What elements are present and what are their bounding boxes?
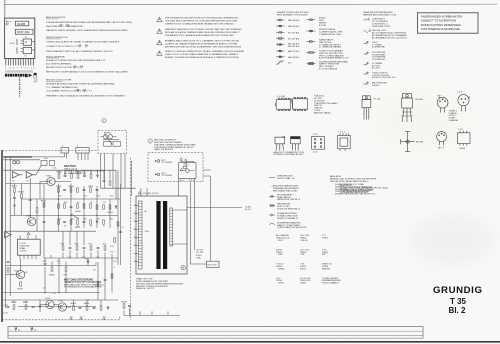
diode D649 bbox=[107, 306, 109, 310]
svg-text:CP: CP bbox=[25, 272, 29, 274]
meas row4 symbol bbox=[364, 52, 369, 55]
bus above IC bbox=[44, 257, 118, 259]
svg-text:B3: B3 bbox=[26, 180, 28, 182]
svg-text:0,6V: 0,6V bbox=[53, 293, 56, 295]
edge connector dark bar bbox=[5, 74, 28, 77]
svg-text:4,7V: 4,7V bbox=[43, 288, 46, 290]
svg-text:R627: R627 bbox=[61, 243, 65, 245]
svg-text:R611: R611 bbox=[88, 186, 94, 188]
svg-text:29365: 29365 bbox=[278, 268, 285, 270]
resistor R616 bbox=[108, 205, 114, 214]
resistor R623 bbox=[90, 220, 92, 224]
resistor R632 bbox=[23, 302, 29, 309]
svg-text:MESURE AVEC/MISURATO CON: MESURE AVEC/MISURATO CON bbox=[363, 13, 396, 16]
svg-text:R616: R616 bbox=[108, 212, 114, 214]
svg-text:TO THR20: TO THR20 bbox=[162, 175, 173, 177]
legend diode BA155 row1 bbox=[276, 19, 285, 21]
meas row5 symbol bbox=[364, 62, 369, 65]
svg-text:R700: R700 bbox=[110, 246, 114, 248]
legend LED row3 bbox=[307, 40, 316, 43]
diode D573 bbox=[13, 204, 15, 208]
wires bottom cluster bbox=[14, 300, 101, 306]
small rect block left bbox=[41, 160, 55, 165]
quad-lead symbol BF469 bbox=[401, 132, 415, 152]
svg-text:-103.05: -103.05 bbox=[300, 240, 308, 242]
svg-text:R619: R619 bbox=[97, 195, 101, 197]
mains connector block 1 bbox=[61, 148, 69, 153]
capacitor C603 bbox=[63, 189, 66, 190]
svg-text:R601: R601 bbox=[56, 186, 62, 188]
bottom components mid bbox=[122, 301, 131, 308]
input triangle connector 3 bbox=[5, 231, 11, 237]
svg-text:TO 220: TO 220 bbox=[373, 99, 381, 101]
long drop wire right bbox=[210, 176, 212, 261]
TO can row2 bbox=[437, 132, 447, 146]
safety triangle transformer label bbox=[138, 191, 141, 194]
svg-text:APRIRE TOGLIERE LA SPINA DALLA: APRIRE TOGLIERE LA SPINA DALLA PRESA DI … bbox=[165, 56, 240, 59]
footer title bar outline bbox=[8, 327, 423, 339]
svg-text:SIGNAL HF STEREO MODULE SUR PR: SIGNAL HF STEREO MODULE SUR PRISE ANTENN… bbox=[46, 59, 106, 62]
svg-text:A...: A... bbox=[145, 210, 149, 213]
resistor R608 bbox=[75, 204, 81, 213]
legend diode row7 bbox=[276, 56, 285, 58]
svg-text:I 0030: I 0030 bbox=[459, 148, 466, 150]
riser pair bbox=[140, 188, 142, 196]
svg-text:100 MV: 100 MV bbox=[372, 85, 380, 87]
svg-text:A ITUR: A ITUR bbox=[319, 24, 326, 27]
svg-text:41,8 V: 41,8 V bbox=[245, 209, 252, 211]
svg-text:R633: R633 bbox=[103, 243, 107, 245]
TO-39 can 2 bbox=[458, 95, 470, 112]
svg-text:R608: R608 bbox=[75, 211, 81, 213]
wires below degauss box bbox=[100, 154, 102, 189]
footer test-point symbol V51 bbox=[15, 327, 22, 332]
resistor R625 bbox=[103, 220, 105, 224]
svg-text:150+: 150+ bbox=[145, 231, 151, 233]
transistor T643 bbox=[58, 300, 67, 311]
svg-text:1 3 5: 1 3 5 bbox=[313, 134, 319, 136]
rail labels bbox=[110, 227, 124, 269]
svg-text:12V/5V: 12V/5V bbox=[19, 251, 27, 253]
svg-text:R637: R637 bbox=[63, 274, 67, 276]
svg-text:WOBBELSENDER UND TASTKOPF 10:1: WOBBELSENDER UND TASTKOPF 10:1 bbox=[335, 193, 376, 196]
input triangle connector 2 bbox=[26, 172, 36, 178]
connector lug NT1 bbox=[155, 160, 160, 163]
section boundary dashed vertical bbox=[130, 158, 132, 320]
svg-text:1 2 3: 1 2 3 bbox=[457, 92, 463, 94]
small trimmer pair bbox=[12, 160, 20, 164]
svg-text:29301: 29301 bbox=[322, 237, 329, 239]
warning note 1 symbol bbox=[157, 17, 162, 22]
cable trail dotted bbox=[19, 77, 21, 98]
earth circle marker bbox=[181, 266, 185, 270]
warning note 2 symbol bbox=[157, 29, 162, 34]
svg-text:TENSIONE CONT.: TENSIONE CONT. bbox=[372, 26, 391, 28]
resistor R615 bbox=[103, 205, 105, 209]
svg-text:T661: T661 bbox=[26, 216, 32, 218]
wire r578 bbox=[36, 199, 38, 231]
capacitor C613 bbox=[96, 189, 99, 190]
svg-text:WITH AN ISOLATING TRANSFORMER.: WITH AN ISOLATING TRANSFORMER. BEFORE OP… bbox=[165, 31, 240, 34]
capacitor C606 bbox=[70, 206, 73, 207]
diode D634 bbox=[39, 305, 41, 309]
legend diode row6 bbox=[276, 50, 285, 52]
svg-text:POINT DE MESURE LT: POINT DE MESURE LT bbox=[277, 208, 301, 210]
svg-text:PRESS MAX/AUTO BUTTON, ALL OBS: PRESS MAX/AUTO BUTTON, ALL OBSERVED PRES… bbox=[46, 50, 113, 53]
page bottom light rule above bbox=[8, 337, 423, 339]
section boundary dashed bottom bbox=[2, 317, 120, 320]
resistor R634 bbox=[97, 274, 113, 286]
svg-text:ALTERNATA/CON OSC. A LIVELLO: ALTERNATA/CON OSC. A LIVELLO bbox=[372, 36, 407, 39]
legend diode row2 bbox=[276, 25, 285, 27]
svg-text:C605: C605 bbox=[58, 195, 62, 197]
ground stubs bottom bbox=[70, 317, 106, 319]
svg-text:C623: C623 bbox=[70, 219, 74, 221]
circled info marker bbox=[148, 139, 152, 143]
transformer core bar right bbox=[163, 201, 167, 269]
svg-text:PERICOLO PER LA CORRENTE SUL T: PERICOLO PER LA CORRENTE SUL TELAIO. L'A… bbox=[165, 50, 245, 53]
capacitor C645 bbox=[79, 307, 82, 308]
junction dots bbox=[58, 198, 98, 216]
svg-text:ENTM.: ENTM. bbox=[104, 132, 111, 134]
lower distribution bus bbox=[6, 264, 96, 266]
svg-text:4: 4 bbox=[134, 212, 135, 214]
svg-text:VOLTMETRO: VOLTMETRO bbox=[372, 59, 386, 61]
inner rail pair bbox=[117, 170, 119, 265]
cap C701 bbox=[7, 261, 10, 262]
svg-text:D. CAPACITA VARIAB.: D. CAPACITA VARIAB. bbox=[319, 46, 342, 49]
svg-text:1N: 1N bbox=[103, 225, 105, 227]
svg-text:C618: C618 bbox=[84, 195, 88, 197]
resistor R610 bbox=[83, 204, 85, 208]
svg-text:CON RISERVA DI MODIFICHE: CON RISERVA DI MODIFICHE bbox=[421, 27, 460, 31]
svg-text:R622: R622 bbox=[58, 219, 62, 221]
svg-text:VALEUR DE CRETE LT: VALEUR DE CRETE LT bbox=[277, 198, 301, 201]
svg-text:0302: 0302 bbox=[278, 254, 284, 256]
capacitor C577 bbox=[43, 221, 46, 222]
degauss dashed box bbox=[98, 131, 126, 154]
svg-text:MOT OHD-STEUERUNG: MOT OHD-STEUERUNG bbox=[64, 277, 93, 281]
flat-pack row2 bbox=[458, 131, 470, 146]
wire drops from bus to motor row bbox=[45, 266, 66, 293]
svg-text:BA 157 B/S: BA 157 B/S bbox=[288, 50, 300, 53]
svg-text:C634: C634 bbox=[43, 261, 47, 263]
svg-text:T 35: T 35 bbox=[450, 297, 467, 306]
resistor R621 bbox=[75, 220, 81, 229]
svg-text:Bl. 2: Bl. 2 bbox=[449, 306, 466, 315]
upper row capacitor C584 bbox=[83, 175, 86, 176]
resistor R635 bbox=[49, 267, 55, 277]
svg-text:0,7V: 0,7V bbox=[3, 312, 8, 314]
svg-text:R624: R624 bbox=[83, 219, 87, 221]
svg-text:-104: -104 bbox=[300, 254, 305, 256]
svg-text:10k: 10k bbox=[90, 225, 93, 227]
svg-text:1k: 1k bbox=[71, 195, 73, 197]
svg-text:MAX-AUTO-TASTE GRUENDL. ALLE G: MAX-AUTO-TASTE GRUENDL. ALLE GEAENDERTE … bbox=[46, 29, 128, 32]
page left border line top bbox=[4, 0, 6, 18]
svg-text:PROJEKTION (SIEHE SERVICE-ANL.: PROJEKTION (SIEHE SERVICE-ANL.) bbox=[330, 180, 369, 183]
bus rows bbox=[6, 183, 47, 185]
vertical feed wires bbox=[58, 184, 60, 231]
svg-text:R580: R580 bbox=[57, 172, 63, 174]
bus taps bbox=[45, 258, 96, 265]
connector side note bbox=[34, 73, 39, 84]
svg-text:A. OSC.: A. OSC. bbox=[372, 67, 380, 70]
svg-text:SI601: SI601 bbox=[44, 158, 48, 160]
svg-text:D625: D625 bbox=[96, 219, 100, 221]
svg-text:C620: C620 bbox=[110, 195, 114, 197]
posistor sub-box bbox=[178, 163, 196, 179]
resistor R607 bbox=[77, 188, 79, 192]
upper row resistor R583 bbox=[76, 172, 82, 179]
capacitor C622 bbox=[83, 221, 86, 222]
label sprinkle upper bbox=[12, 158, 113, 228]
mains feeder dashed line bbox=[2, 150, 98, 152]
svg-text:8-18: 8-18 bbox=[10, 43, 15, 45]
svg-text:R626: R626 bbox=[109, 219, 113, 221]
bus row lower1 bbox=[3, 292, 100, 294]
svg-text:7: 7 bbox=[134, 260, 135, 262]
wire T640 base bbox=[6, 274, 18, 276]
TO-220 package bbox=[362, 96, 371, 120]
svg-text:R. DI SICUREZZA: R. DI SICUREZZA bbox=[319, 68, 338, 71]
transistor T640 bbox=[14, 270, 28, 278]
svg-text:R641: R641 bbox=[18, 288, 24, 290]
svg-text:R605: R605 bbox=[69, 186, 75, 188]
transistor T661 bbox=[26, 216, 36, 226]
IF stage sub-box 2 bbox=[23, 47, 31, 53]
tuner module outline bbox=[5, 18, 35, 58]
svg-text:STEUERUNG ANTRIEB MIT AV-SIGNA: STEUERUNG ANTRIEB MIT AV-SIGNAL UND ANTE… bbox=[46, 21, 133, 24]
wire into label box bbox=[191, 250, 207, 264]
degauss coil symbol bbox=[100, 134, 120, 146]
legend diode row5 bbox=[276, 43, 285, 45]
feed stubs from upper bus bbox=[59, 170, 116, 199]
emitter wire T660 bbox=[54, 181, 71, 183]
warning note 4 symbol bbox=[157, 51, 162, 56]
svg-text:0,5A: 0,5A bbox=[196, 256, 201, 259]
svg-text:BF 17: BF 17 bbox=[438, 148, 445, 150]
legend rectifier row1 bbox=[307, 19, 316, 21]
svg-text:CORRECT TEST POINTS 4: CORRECT TEST POINTS 4 7 TO bbox=[46, 46, 79, 48]
svg-text:R583: R583 bbox=[76, 172, 82, 174]
svg-text:THE MAINS PLUG. OBSERVE WHEN H: THE MAINS PLUG. OBSERVE WHEN HANDLING TH… bbox=[165, 34, 235, 37]
legend suppressor row5 bbox=[307, 63, 316, 65]
meas row1 symbol bbox=[364, 19, 370, 21]
alterations notice box bbox=[418, 13, 479, 33]
left feedback column resistor R571 bbox=[12, 186, 18, 193]
capacitor C609 bbox=[83, 189, 86, 190]
svg-text:COMPOSANT DE SECURITE: COMPOSANT DE SECURITE bbox=[277, 226, 307, 229]
secondary output wire bbox=[187, 207, 242, 209]
transistor T660 bbox=[46, 175, 55, 185]
meas row2 symbol bbox=[364, 30, 371, 33]
diagonal link bbox=[71, 214, 79, 219]
svg-text:2 4 6: 2 4 6 bbox=[313, 152, 319, 154]
circled marker 1 bbox=[102, 119, 106, 123]
resistor R641 bbox=[18, 282, 24, 291]
svg-text:C636: C636 bbox=[57, 261, 61, 263]
svg-text:a: a bbox=[134, 204, 135, 206]
res R588 bbox=[109, 181, 111, 185]
svg-text:BROCHAGE RACCORD: BROCHAGE RACCORD bbox=[273, 189, 298, 192]
capacitor C575 bbox=[29, 199, 32, 200]
primary winding ladder bbox=[138, 201, 142, 269]
capacitor C631 bbox=[7, 306, 10, 307]
TO-92 package 2 bbox=[291, 137, 301, 151]
regulator IC700 box bbox=[17, 239, 40, 255]
labels above IC row bbox=[61, 243, 107, 258]
symbol note item 4 bbox=[269, 214, 275, 216]
svg-text:2: 2 bbox=[134, 236, 135, 238]
collector wire into transformer bbox=[101, 187, 137, 189]
riser to motor area bbox=[98, 258, 112, 300]
pin contact dots row bbox=[6, 70, 32, 72]
svg-text:OBEN BF 819: OBEN BF 819 bbox=[289, 154, 304, 156]
svg-text:0,1: 0,1 bbox=[122, 227, 124, 229]
svg-text:TASTPUNKTE 4 7 ZU BE: TASTPUNKTE 4 7 ZU BEOBACHTEN. bbox=[46, 25, 84, 28]
safety triangle bbox=[180, 158, 183, 161]
TO-92 package 1 bbox=[275, 136, 285, 150]
svg-text:B/EURO: B/EURO bbox=[322, 268, 331, 270]
svg-text:B/P: B/P bbox=[322, 254, 326, 256]
svg-text:5 MASSE: 5 MASSE bbox=[449, 119, 459, 122]
wire feedback column bbox=[13, 184, 15, 216]
svg-text:29404: 29404 bbox=[300, 283, 307, 285]
mid column risers bbox=[63, 231, 84, 245]
svg-text:GRUNDIG: GRUNDIG bbox=[433, 285, 482, 296]
svg-text:TDA 8138: TDA 8138 bbox=[19, 245, 30, 248]
svg-text:BA 158 B/S: BA 158 B/S bbox=[288, 56, 300, 59]
meas row3 symbol bbox=[364, 41, 369, 44]
capacitor C619 bbox=[63, 221, 66, 222]
resistor R637 bbox=[65, 267, 67, 271]
svg-text:USATO SOLO CON UN TRASFORMATOR: USATO SOLO CON UN TRASFORMATORE DI SEPAR… bbox=[165, 53, 238, 56]
internal bus line bbox=[16, 39, 18, 45]
vertical rail x30 bbox=[29, 178, 31, 218]
bus row lower3 partial bbox=[18, 305, 96, 307]
svg-text:HEATSINK CARRYING LIVE VOLTAGE: HEATSINK CARRYING LIVE VOLTAGE. THE SET … bbox=[165, 28, 242, 31]
left supply rail bbox=[5, 157, 7, 308]
svg-text:PREMERE IL TASTO MAX/AUTO,SEGM: PREMERE IL TASTO MAX/AUTO,SEGMENT ACCEND… bbox=[46, 95, 126, 98]
svg-text:RETIRER LA FICHE SECTEUR. A OB: RETIRER LA FICHE SECTEUR. A OBSERVER LOR… bbox=[165, 46, 242, 49]
svg-text:BA 243 B/S: BA 243 B/S bbox=[288, 25, 300, 28]
svg-text:5: 5 bbox=[134, 220, 135, 222]
svg-text:BY 227 B/S: BY 227 B/S bbox=[288, 38, 300, 40]
DIP-6 bottom view bbox=[312, 137, 325, 150]
connector arrow bbox=[29, 74, 33, 77]
svg-text:R635: R635 bbox=[49, 274, 55, 276]
svg-text:UNTEN BC 548: UNTEN BC 548 bbox=[274, 154, 290, 156]
IF stage sub-box 1 bbox=[23, 39, 31, 45]
svg-text:G41: G41 bbox=[93, 270, 96, 272]
svg-text:1 +L(1)B: 1 +L(1)B bbox=[277, 96, 286, 98]
resistor R630 bbox=[11, 302, 17, 309]
svg-text:D638: D638 bbox=[85, 259, 89, 261]
resistor R576 bbox=[41, 201, 47, 208]
vertical rail x44 bbox=[43, 184, 45, 255]
capacitor C634 bbox=[44, 263, 47, 264]
svg-text:T642: T642 bbox=[45, 298, 51, 300]
input triangle connector 1 bbox=[13, 172, 23, 178]
safety triangle above IC bbox=[27, 232, 30, 235]
capacitor C572 bbox=[13, 197, 16, 198]
svg-text:ZIEHEN! ES IST ZU BEACHTEN BEI: ZIEHEN! ES IST ZU BEACHTEN BEIM UMGANG M… bbox=[165, 23, 235, 26]
resistor R574 bbox=[19, 192, 25, 199]
upper bus bbox=[56, 169, 116, 171]
svg-text:R655: R655 bbox=[122, 301, 128, 303]
capacitor C633 bbox=[32, 306, 35, 307]
svg-text:SEGNALE AF A MODULAZIONE STERE: SEGNALE AF A MODULAZIONE STEREO ALLA PRE… bbox=[46, 83, 115, 86]
svg-text:31286: 31286 bbox=[17, 22, 26, 26]
svg-text:FÜR DIE ANSCHLUSSPUNKTE PROJIT: FÜR DIE ANSCHLUSSPUNKTE PROJIT STROMSCHL… bbox=[165, 17, 239, 20]
svg-text:APPAREIL RACCORDE SOUS T.H.T.: APPAREIL RACCORDE SOUS T.H.T. L'APPAREIL… bbox=[165, 40, 240, 43]
svg-text:GANZ ZULAESSIG: GANZ ZULAESSIG bbox=[154, 148, 173, 151]
svg-text:1 3 5 7 9 11 13: 1 3 5 7 9 11 13 bbox=[5, 68, 35, 70]
resistor R601 bbox=[56, 186, 62, 192]
posistor interior bbox=[180, 166, 194, 172]
underline MOT caption bbox=[64, 280, 101, 282]
legend diode row4 bbox=[276, 37, 285, 39]
svg-text:3: 3 bbox=[134, 228, 135, 230]
capacitor C647 bbox=[93, 307, 96, 308]
svg-text:22,1V: 22,1V bbox=[113, 261, 117, 263]
legend diode row3 bbox=[276, 31, 285, 33]
secondary winding bbox=[170, 208, 173, 246]
module type label box STAT 06s bbox=[15, 29, 33, 34]
resistor R620 bbox=[70, 220, 72, 224]
footer bar divider bbox=[8, 330, 423, 332]
mains transformer box TR601 bbox=[136, 196, 187, 274]
row of parts above IC bbox=[62, 246, 106, 250]
svg-text:STEREO-MODULATED HF SIGNAL TO: STEREO-MODULATED HF SIGNAL TO AERIAL SOC… bbox=[46, 41, 120, 44]
safety triangle inside bbox=[180, 168, 183, 171]
svg-text:R576: R576 bbox=[41, 201, 47, 203]
svg-text:BY 227 B/S: BY 227 B/S bbox=[288, 32, 300, 34]
svg-text:SUPPLY RAIL +B: SUPPLY RAIL +B bbox=[277, 177, 295, 180]
mains connector block 2 bbox=[76, 148, 89, 153]
transistor T642 bbox=[45, 298, 54, 309]
wire drop connector1 bbox=[66, 153, 68, 159]
svg-text:T643: T643 bbox=[58, 300, 64, 302]
upper row diode D586 bbox=[96, 174, 98, 178]
DIP package outline 1 bbox=[275, 98, 290, 110]
svg-text:ACCORDER L'APPAREIL,: ACCORDER L'APPAREIL, bbox=[46, 62, 72, 65]
wire r574 bbox=[20, 184, 22, 216]
svg-text:29311: 29311 bbox=[278, 283, 285, 285]
legend power-diode row4 bbox=[307, 52, 316, 54]
page bottom dark rule bbox=[0, 341, 500, 343]
resistor R605 bbox=[69, 186, 75, 192]
footer test-point symbol V52 bbox=[31, 327, 38, 332]
svg-text:1 2 3 4: 1 2 3 4 bbox=[338, 131, 345, 133]
svg-text:TV1, TARARE L'APPARECCHIO.: TV1, TARARE L'APPARECCHIO. bbox=[46, 86, 79, 89]
resistor R612 bbox=[90, 204, 92, 208]
svg-text:BF 469: BF 469 bbox=[416, 141, 424, 143]
svg-text:NOS 181: NOS 181 bbox=[208, 264, 218, 266]
wire T640 collector bbox=[20, 259, 22, 271]
resistor R644 bbox=[71, 303, 77, 310]
meas row6 symbol bbox=[364, 72, 369, 75]
svg-text:29372: 29372 bbox=[300, 268, 307, 270]
svg-text:B1: B1 bbox=[12, 180, 14, 182]
safety cap above bbox=[181, 159, 194, 164]
page top border line bbox=[4, 3, 497, 5]
symbol note item 3 bbox=[269, 205, 275, 207]
upper row resistor R580 bbox=[57, 172, 63, 179]
riser to mains box bbox=[131, 161, 133, 196]
symbol note item 2 bbox=[269, 195, 275, 197]
